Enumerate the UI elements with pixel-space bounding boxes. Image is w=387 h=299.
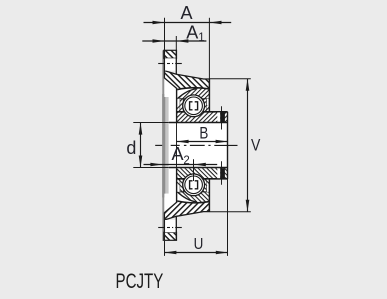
lower tab right edge [175,216,177,240]
dimension B right arrow [216,140,228,144]
svg-text:U: U [194,236,204,253]
dimension A1 line [142,40,206,42]
housing upper slope inner edge [164,78,177,89]
lower bearing side gaps (white) [177,185,179,192]
lower bolt hole centreline [158,227,164,229]
dimension V top arrow [246,79,250,91]
upper bearing ball [185,97,203,115]
dimension A line [144,22,232,24]
dimension V line [247,79,249,212]
dimension B line [177,141,228,143]
flange side silhouette (grey) [162,50,164,241]
upper tab left edge [163,50,165,78]
lower bearing outer ring (hatched) [177,174,209,202]
dimension A2 left arrow [150,163,162,167]
lower bolt tab cap (hatched) [164,232,177,240]
dimension U right extension [227,179,229,256]
lower bearing raceway ring [183,174,205,196]
upper bearing raceway ring [183,95,205,117]
svg-text:1: 1 [198,32,204,44]
pocket white lower [164,168,176,212]
dimension B left extension [176,122,178,147]
lower housing rim right face [208,179,210,212]
dimension A2 line [144,164,218,166]
dimension U left extension [164,241,166,256]
dimension U right arrow [216,251,228,255]
lower bearing band inner edge [177,191,209,193]
lower bearing outer ring OD edge [177,201,209,203]
dimension A right extension [208,18,210,79]
bearing centre plane tick [193,159,195,181]
upper bolt tab cap (hatched) [164,50,177,58]
upper inner ring shoulders (hatched) [177,105,180,112]
lower bearing ball [185,176,203,194]
lower bearing left face [176,168,178,202]
svg-text:B: B [199,124,208,143]
svg-text:V: V [251,136,261,154]
lower bearing OD seat white sliver [177,192,196,202]
bore bottom edge [133,167,169,169]
upper bolt hole (white) [165,58,176,70]
housing upper slope top edge [164,71,209,79]
dimension U line [164,252,227,254]
dimension A2 right arrow [194,163,206,167]
housing lower slope bottom edge [164,212,209,220]
dimension A1 left arrow [153,39,165,43]
dimension B lower-left extension [176,144,178,168]
svg-text:A: A [172,144,184,164]
housing lower slope inner edge [164,202,177,213]
dimension V bottom arrow [246,200,250,212]
upper housing rim right face [208,79,210,112]
svg-text:A: A [186,23,198,43]
bore (white) [169,123,228,168]
lower bearing column edges [179,179,181,192]
svg-text:d: d [126,138,136,158]
dimension d line [140,123,142,168]
housing upper slope section [164,71,209,89]
upper bearing OD seat white sliver [177,89,196,99]
dimension A right arrow [210,21,222,25]
upper bearing outer ring (hatched) [177,89,209,117]
upper tab right edge [175,50,177,74]
upper bearing outer ring OD edge [177,88,209,90]
dimension A left extension [164,18,166,50]
upper sleeve edge line [177,111,228,113]
housing lower slope section [164,202,209,220]
dimension d top arrow [139,123,143,135]
flange dish silhouette (light grey) [165,97,168,194]
upper bearing column edges [179,99,181,112]
dimension A left arrow [153,21,165,25]
svg-text:A: A [181,3,193,23]
dimension U left arrow [164,251,176,255]
svg-text:PCJTY: PCJTY [116,268,164,292]
lower bearing inner ring sleeve (hatched) [177,168,228,179]
lower set screw [217,168,220,178]
sleeve right end face [227,112,229,179]
bore top edge [133,122,169,124]
dimension V bottom extension [209,211,250,213]
dimension V top extension [209,78,250,80]
dimension B left arrow [177,140,189,144]
svg-text:2: 2 [183,155,189,167]
upper bearing band inner edge [177,98,209,100]
upper bearing inner ring sleeve (hatched) [177,112,228,123]
lower bearing OD arc edge [177,191,197,202]
lower bolt hole (white) [165,220,176,232]
pocket white upper [164,78,176,122]
upper bearing side gaps (white) [177,99,179,106]
dimension A1 right extension [175,36,177,50]
upper bearing left face [176,89,178,123]
upper set screw [217,112,220,122]
dimension A1 right arrow [176,39,188,43]
flange dish silhouette (dark grey) [162,94,165,198]
lower tab left edge [163,212,165,240]
shaft axis centreline [155,144,162,146]
lower sleeve edge line [177,178,228,180]
lower ball cage mark [190,181,198,189]
upper ball cage mark [190,102,198,110]
lower inner ring shoulders (hatched) [177,179,180,186]
upper bolt hole centreline [158,63,164,65]
dimension d bottom arrow [139,156,143,168]
upper bearing OD arc edge [177,89,197,100]
